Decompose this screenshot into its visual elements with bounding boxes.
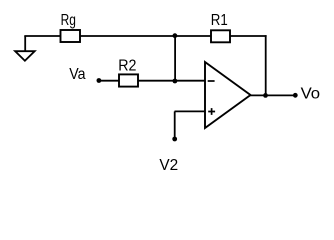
- svg-text:Vo: Vo: [301, 85, 321, 102]
- node junction output: [263, 93, 268, 98]
- op-amp minus pin mark: [208, 80, 215, 82]
- node junction inverting input: [173, 79, 178, 84]
- svg-text:Va: Va: [69, 66, 85, 83]
- wire: [99, 80, 119, 82]
- wire: [174, 111, 176, 139]
- op-amp U1: [205, 62, 251, 128]
- ground: [15, 36, 35, 61]
- wire: [265, 35, 267, 95]
- wire: [250, 94, 295, 96]
- node Va: [97, 78, 102, 83]
- wire: [138, 80, 205, 82]
- node V2 terminal: [172, 137, 177, 142]
- svg-text:R1: R1: [211, 12, 228, 29]
- node junction top: [173, 33, 178, 38]
- wire: [175, 110, 206, 112]
- wire: [80, 35, 211, 37]
- resistor R2: [119, 74, 138, 86]
- wire: [174, 36, 176, 81]
- svg-text:V2: V2: [159, 157, 178, 174]
- wire: [230, 35, 267, 37]
- wire: [24, 35, 60, 37]
- node Vo terminal: [293, 93, 298, 98]
- svg-text:Rg: Rg: [61, 12, 76, 29]
- resistor Rg: [61, 30, 81, 42]
- op-amp plus pin mark: [208, 108, 215, 115]
- svg-text:R2: R2: [118, 57, 136, 74]
- resistor R1: [211, 30, 230, 42]
